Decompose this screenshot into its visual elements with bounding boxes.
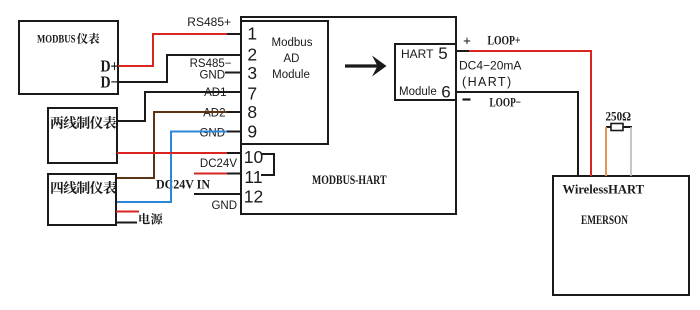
svg-text:5: 5 bbox=[438, 44, 447, 63]
svg-text:12: 12 bbox=[244, 186, 263, 206]
pin1 stub bbox=[227, 33, 241, 35]
svg-text:EMERSON: EMERSON bbox=[581, 212, 628, 227]
svg-text:GND: GND bbox=[199, 128, 225, 140]
svg-text:DC24V IN: DC24V IN bbox=[156, 177, 211, 192]
svg-text:LOOP+: LOOP+ bbox=[488, 33, 521, 48]
instrument box: MODBUS meter (MODBUS仪表) bbox=[19, 21, 118, 94]
svg-text:7: 7 bbox=[247, 83, 257, 103]
pin5 stub bbox=[456, 50, 470, 52]
wire D+ to pin1 RS485+ (red) bbox=[118, 34, 228, 66]
svg-text:10: 10 bbox=[244, 147, 264, 167]
svg-text:+: + bbox=[463, 35, 471, 50]
label 四线制仪表 bbox=[51, 181, 116, 194]
svg-text:DC24V: DC24V bbox=[200, 158, 237, 170]
pin9 stub bbox=[227, 131, 241, 133]
wire AD2 pin8 to four-wire meter (brown) bbox=[117, 112, 227, 178]
svg-text:Module: Module bbox=[399, 86, 437, 98]
instrument box: four-wire meter (四线制仪表) bbox=[48, 174, 116, 225]
label 电源 bbox=[139, 213, 162, 224]
wire LOOP+ pin5 to gateway (red) bbox=[469, 51, 591, 176]
module outer box MODBUS-HART bbox=[241, 17, 456, 214]
svg-text:2: 2 bbox=[247, 44, 257, 64]
wire D- to pin2 RS485- (black) bbox=[118, 55, 241, 82]
label - (LOOP- polarity) bbox=[463, 98, 471, 100]
svg-text:RS485−: RS485− bbox=[190, 58, 232, 70]
pin10 stub bbox=[227, 152, 241, 154]
wire LOOP- pin6 to gateway (black) bbox=[456, 92, 578, 176]
svg-text:8: 8 bbox=[247, 102, 257, 122]
wire resistor left lead down (orange) bbox=[605, 127, 607, 176]
svg-text:6: 6 bbox=[441, 83, 450, 102]
svg-text:MODBUS-HART: MODBUS-HART bbox=[312, 173, 387, 187]
svg-text:AD: AD bbox=[284, 53, 300, 65]
power stub 电源 + (red) bbox=[116, 211, 139, 213]
instrument box: two-wire meter (两线制仪表) bbox=[48, 108, 117, 163]
svg-text:DC4−20mA: DC4−20mA bbox=[459, 59, 521, 73]
svg-text:WirelessHART: WirelessHART bbox=[563, 182, 645, 197]
resistor R1 250 ohm bbox=[606, 124, 632, 131]
wire two-wire meter to pin10 DC24V (red) bbox=[117, 152, 228, 154]
svg-text:Module: Module bbox=[272, 69, 310, 81]
svg-text:D−: D− bbox=[101, 73, 119, 92]
label MODBUS仪表 bbox=[37, 32, 99, 46]
svg-text:LOOP−: LOOP− bbox=[490, 95, 522, 110]
svg-text:AD2: AD2 bbox=[203, 108, 225, 120]
pin11 stub bbox=[227, 173, 241, 175]
svg-text:MODBUS: MODBUS bbox=[37, 32, 76, 46]
svg-text:11: 11 bbox=[244, 167, 262, 187]
signal flow arrow bbox=[345, 56, 387, 77]
HART module box U2 bbox=[395, 44, 456, 100]
svg-text:RS485+: RS485+ bbox=[187, 15, 231, 29]
WirelessHART gateway box bbox=[553, 176, 689, 295]
svg-text:3: 3 bbox=[247, 63, 257, 83]
power stub 电源 - (black) bbox=[116, 222, 137, 224]
label 两线制仪表 bbox=[51, 116, 117, 129]
svg-text:9: 9 bbox=[247, 121, 257, 141]
svg-text:Modbus: Modbus bbox=[272, 37, 313, 49]
svg-text:250Ω: 250Ω bbox=[606, 110, 632, 124]
wire GND pin9 to four-wire meter (blue) bbox=[117, 132, 227, 203]
module inner box: Modbus AD Module U1 bbox=[241, 21, 328, 144]
label Modbus AD Module bbox=[272, 37, 313, 81]
wire AD1 pin7 to two-wire meter (black) bbox=[118, 92, 241, 121]
svg-text:GND: GND bbox=[199, 70, 225, 82]
wire pin12 GND (black) bbox=[194, 193, 241, 195]
pin3 GND stub bbox=[225, 72, 241, 74]
svg-text:HART: HART bbox=[401, 47, 434, 61]
pin8 stub bbox=[227, 111, 241, 113]
wire DC24V IN to pin11 (red) bbox=[194, 173, 228, 175]
svg-text:(HART): (HART) bbox=[462, 75, 513, 89]
bracket joining pins 10 and 11 bbox=[261, 154, 274, 175]
svg-text:GND: GND bbox=[211, 200, 237, 212]
wire resistor right lead down (gray) bbox=[630, 127, 632, 176]
svg-text:1: 1 bbox=[247, 23, 257, 43]
